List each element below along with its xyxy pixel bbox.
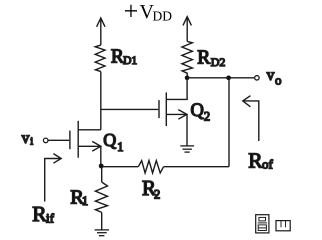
terminal vo (open circle) — [255, 76, 260, 81]
node dot: Q1 source / R1 / R2 — [99, 164, 104, 169]
transistor Q1 : gate bar — [69, 131, 71, 150]
ground under Q2 source — [180, 146, 194, 152]
svg-text:Rof: Rof — [248, 149, 273, 173]
power label +VDD — [124, 0, 173, 25]
wire output rail to vo terminal — [187, 77, 254, 79]
output resistance arrow Rof — [243, 96, 259, 141]
transistor Q1 : gate lead — [48, 139, 69, 141]
caption "figure four" drawn as strokes — [256, 215, 291, 233]
wire R2 to feedback riser — [164, 166, 229, 168]
wire Q1 drain to Q2 gate — [101, 108, 159, 110]
glyph TU (figure) outer box — [256, 215, 269, 233]
resistor R1 — [95, 182, 107, 212]
transistor Q2 : gate bar — [158, 100, 160, 118]
transistor Q2 : drain lead — [166, 78, 187, 100]
wire node down to R1 — [101, 166, 103, 182]
node dot: feedback tap on output rail — [226, 75, 231, 80]
terminal vi (open circle) — [43, 138, 48, 143]
ground under R1 — [95, 230, 109, 236]
svg-text:VDD: VDD — [140, 1, 173, 23]
resistor R_D2 — [182, 41, 193, 77]
transistor Q1 : source lead with arrow — [78, 141, 101, 165]
svg-text:R2: R2 — [142, 176, 160, 201]
svg-text:RD2: RD2 — [197, 48, 225, 70]
glyph SI (four) outer box — [276, 221, 290, 231]
svg-text:RD1: RD1 — [111, 47, 138, 68]
svg-text:Rif: Rif — [32, 202, 54, 226]
resistor R2 — [138, 161, 163, 173]
svg-text:vi: vi — [22, 130, 34, 148]
transistor Q2 : source lead with arrow — [166, 110, 187, 146]
glyph SI inner left stroke — [280, 221, 282, 228]
transistor Q2 : channel bar — [165, 92, 167, 126]
transistor Q1 : channel bar — [77, 121, 79, 158]
feedback wire up to output rail — [228, 78, 230, 167]
svg-text:vo: vo — [267, 67, 282, 88]
resistor R_D1 — [95, 45, 105, 72]
glyph TU bottom inner box — [258, 225, 266, 231]
glyph TU bottom box inner line — [258, 227, 266, 229]
svg-text:Q2: Q2 — [191, 101, 211, 123]
svg-text:+: + — [124, 0, 139, 25]
svg-text:Q1: Q1 — [103, 130, 123, 154]
wire R_D1 bottom to Q1 drain corner — [100, 72, 102, 130]
glyph TU middle horizontal — [258, 222, 267, 224]
glyph SI inner right stroke — [285, 221, 287, 228]
VDD arrow (right, above R_D2) — [183, 17, 191, 42]
svg-text:R1: R1 — [70, 187, 88, 209]
glyph TU top inner box — [259, 217, 266, 221]
transistor Q1 : drain lead — [78, 129, 101, 131]
VDD arrow (left, above R_D1) — [97, 18, 105, 45]
input resistance arrow Rif — [45, 154, 62, 202]
node dot: R_D2 / Q2 drain / output rail — [185, 75, 190, 80]
wire node to R2 — [101, 166, 138, 168]
wire R1 to ground — [101, 212, 103, 229]
